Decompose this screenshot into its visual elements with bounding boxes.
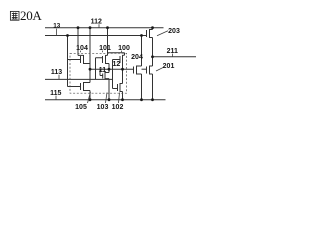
svg-text:11: 11 [99,67,107,74]
svg-text:113: 113 [51,69,62,76]
svg-text:112: 112 [91,19,102,26]
svg-text:211: 211 [167,48,178,55]
svg-text:203: 203 [168,28,180,35]
svg-text:103: 103 [97,104,109,111]
svg-text:104: 104 [76,45,88,52]
svg-text:201: 201 [163,63,175,70]
svg-text:101: 101 [99,45,111,52]
svg-text:12: 12 [113,61,121,68]
svg-text:115: 115 [50,90,61,97]
svg-text:105: 105 [75,104,87,111]
svg-text:13: 13 [53,22,61,29]
svg-text:100: 100 [118,45,130,52]
svg-text:204: 204 [131,54,143,61]
svg-text:20A: 20A [20,8,42,23]
svg-text:102: 102 [112,104,124,111]
